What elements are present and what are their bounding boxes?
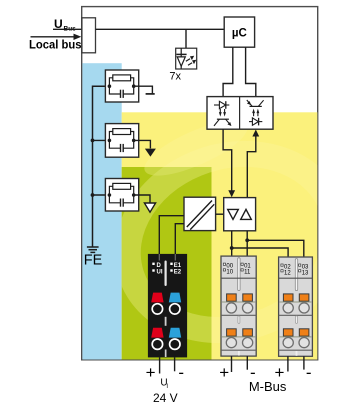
filter F2 [105,124,138,158]
wire branch to terminal 2 right [247,240,304,257]
filter F3 [105,179,138,212]
svg-text:10: 10 [226,269,233,275]
svg-text:-: - [178,363,184,382]
wire M-Bus2 stub + [303,356,305,369]
svg-text:I: I [166,384,168,390]
M-Bus terminal block 1 (gray) [221,256,256,356]
green region (supply zone) [122,167,212,360]
wire filter 1 to shield tail [134,86,153,93]
optocoupler pair box [207,97,273,130]
wire U_Bus underline [53,28,82,30]
wire level box to M-Bus terminal 1 right [246,231,248,256]
svg-text:E2: E2 [174,270,182,276]
wire level box to M-Bus terminal 1 left [231,231,233,256]
wire branch to terminal 2 left [232,248,288,257]
svg-text:FE: FE [84,253,103,269]
svg-text:µC: µC [232,27,247,39]
wire µC to optocoupler left [223,47,233,96]
LED indicator box [176,48,197,69]
local bus arrow [31,34,82,40]
wire µC to optocoupler right [246,47,256,96]
svg-text:11: 11 [244,269,251,275]
wire M-Bus1 stub + [231,356,233,372]
decorative swirl green [105,127,348,356]
blue region (bus power zone) [82,63,121,359]
svg-text:7x: 7x [169,71,181,83]
node branch left [230,246,234,250]
label U_Bus [54,17,76,33]
wire optocoupler to level box (down arrow) [223,129,232,191]
DC/DC converter box [184,197,216,230]
svg-text:13: 13 [302,270,309,276]
LED symbol [176,48,196,68]
label UI [160,378,168,391]
svg-text:UI: UI [157,270,163,276]
wire filter 3 output [134,195,150,203]
supply terminal block (black) [148,254,187,358]
outer border frame [82,7,318,360]
optocoupler left symbols [214,101,231,126]
svg-text:E1: E1 [174,263,182,269]
svg-text:M-Bus: M-Bus [249,379,287,394]
node branch right [245,238,249,242]
node filter 2 [91,139,95,143]
wire supply stub - [174,357,176,371]
wire DC/DC to supply terminal right [175,224,184,254]
decorative swirl yellow [105,110,348,357]
filter F1 [105,70,138,102]
wire filter 2 output [134,140,151,148]
wire branch filter 3 [93,194,110,196]
microcontroller U1 µC [224,17,254,47]
svg-text:D: D [157,263,162,269]
wire M-Bus1 stub - [246,356,248,370]
svg-text:24 V: 24 V [153,391,178,405]
ground FE [87,247,99,252]
svg-text:Local bus: Local bus [29,39,82,51]
shield terminal bar [146,93,155,95]
node filter 3 [91,193,95,197]
svg-text:+: + [219,363,229,382]
local bus connector box [82,18,96,53]
wire DC/DC to supply terminal left [159,216,184,254]
yellow region (M-Bus zone) [122,112,318,359]
bus rail wire [93,86,110,246]
wire supply stub + [159,357,161,373]
wire level box to optocoupler (up arrow) [252,130,259,137]
wire bus connector to µC [96,28,225,30]
M-Bus terminal block 2 (gray) [279,257,313,356]
wire M-Bus2 stub - [287,356,289,371]
open arrow down [144,203,155,212]
M-Bus level converter box [224,198,256,231]
wire branch filter 2 [93,139,110,141]
svg-text:+: + [146,363,156,382]
svg-text:12: 12 [284,270,291,276]
filled arrow down [145,149,156,157]
svg-text:-: - [306,363,312,382]
wire DC/DC to level converter [216,213,224,215]
optocoupler right symbols [247,100,264,125]
wire drop to LED box [185,29,187,48]
